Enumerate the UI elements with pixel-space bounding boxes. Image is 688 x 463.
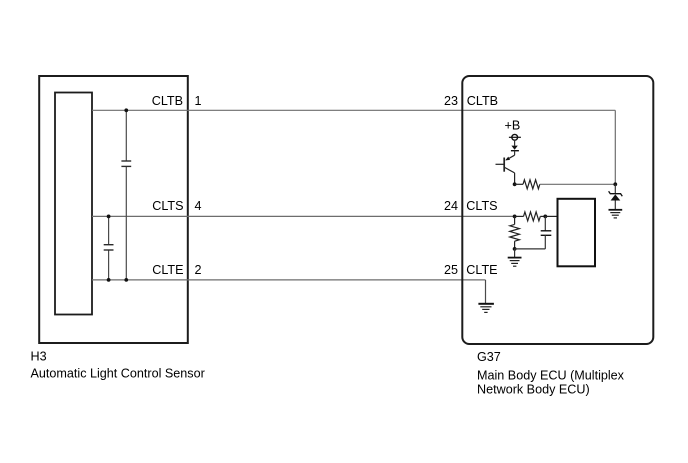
capacitor C2 wire (CLTS to CLTE inside H3): [108, 216, 110, 244]
node on CLTE: [124, 278, 128, 282]
diode D1 (cathode down): [511, 146, 517, 150]
comparator block U1: [558, 199, 596, 266]
node R3/C3 bottom: [513, 247, 517, 251]
node collector/R1: [513, 182, 517, 186]
svg-text:CLTS: CLTS: [466, 199, 497, 213]
zener diode D2: [614, 184, 616, 193]
capacitor C3: [544, 216, 546, 230]
transistor Q1 collector: [505, 168, 515, 173]
svg-text:25: 25: [444, 263, 458, 277]
ground G3 (CLTE): [478, 303, 494, 305]
+B terminal circle: [512, 134, 518, 140]
svg-text:24: 24: [444, 199, 458, 213]
node R2/C3: [543, 215, 547, 219]
transistor Q1 base bar: [503, 158, 505, 172]
ground G1 (zener): [609, 209, 623, 211]
wire +B to diode: [514, 140, 516, 146]
transistor Q1 base lead: [496, 163, 505, 165]
node on CLTE 2: [107, 278, 111, 282]
svg-text:CLTE: CLTE: [152, 263, 183, 277]
svg-text:CLTB: CLTB: [152, 94, 183, 108]
node CLTS/R2/R3: [513, 215, 517, 219]
svg-text:Main Body ECU (Multiplex: Main Body ECU (Multiplex: [477, 369, 625, 383]
svg-text:H3: H3: [31, 350, 47, 364]
svg-text:CLTS: CLTS: [152, 199, 183, 213]
resistor R1 (horizontal, collector to CLTB net): [515, 183, 523, 185]
ground G2 (R3/C3): [514, 249, 516, 258]
ECU G37 box: [462, 76, 653, 344]
wire C3 bottom to R3 bottom: [515, 248, 546, 250]
node on CLTB: [124, 108, 128, 112]
node CLTB/zener: [613, 182, 617, 186]
capacitor C1 plates: [121, 160, 131, 162]
svg-text:CLTE: CLTE: [466, 263, 497, 277]
svg-text:4: 4: [195, 199, 202, 213]
wire CLTE stub to ground: [485, 280, 487, 304]
node on CLTS: [107, 215, 111, 219]
svg-text:Network Body ECU): Network Body ECU): [477, 383, 590, 397]
resistor R3 (vertical, CLTS to ground): [514, 216, 516, 224]
wire diode to transistor emitter: [514, 151, 516, 156]
svg-text:23: 23: [444, 94, 458, 108]
H3 sensor inner block: [55, 93, 92, 315]
wire CLTS (H3 pin 4 to G37 pin 24): [92, 215, 515, 217]
capacitor C1 wire (CLTB to CLTE inside H3): [125, 110, 127, 161]
svg-text:Automatic Light Control Sensor: Automatic Light Control Sensor: [31, 367, 205, 381]
connector H3 outer box: [39, 76, 188, 343]
svg-text:1: 1: [195, 94, 202, 108]
svg-text:2: 2: [195, 263, 202, 277]
wire CLTE (H3 pin 2 to G37 pin 25): [92, 279, 486, 281]
wire to comparator block: [545, 215, 557, 217]
transistor Q1 (PNP) emitter: [506, 155, 514, 160]
svg-text:CLTB: CLTB: [467, 94, 498, 108]
+B terminal side ticks: [509, 136, 521, 138]
wire CLTB (H3 pin 1 to G37 pin 23): [92, 109, 615, 111]
capacitor C2 plates: [104, 244, 114, 246]
svg-text:+B: +B: [505, 118, 521, 132]
svg-text:G37: G37: [477, 350, 501, 364]
wire CLTB vertical drop inside G37: [614, 110, 616, 184]
resistor R2 (horizontal on CLTS): [515, 215, 524, 217]
